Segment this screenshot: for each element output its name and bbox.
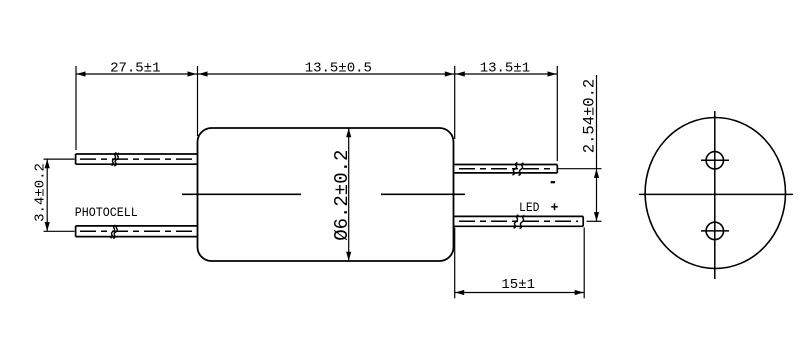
svg-text:PHOTOCELL: PHOTOCELL bbox=[75, 206, 138, 220]
svg-text:Ø6.2±0.2: Ø6.2±0.2 bbox=[331, 150, 353, 241]
svg-text:LED: LED bbox=[519, 201, 540, 215]
svg-text:13.5±1: 13.5±1 bbox=[480, 60, 530, 76]
svg-text:13.5±0.5: 13.5±0.5 bbox=[305, 60, 372, 76]
svg-text:3.4±0.2: 3.4±0.2 bbox=[32, 163, 48, 222]
svg-text:27.5±1: 27.5±1 bbox=[110, 60, 160, 76]
svg-text:15±1: 15±1 bbox=[501, 277, 535, 293]
svg-text:2.54±0.2: 2.54±0.2 bbox=[580, 79, 598, 153]
